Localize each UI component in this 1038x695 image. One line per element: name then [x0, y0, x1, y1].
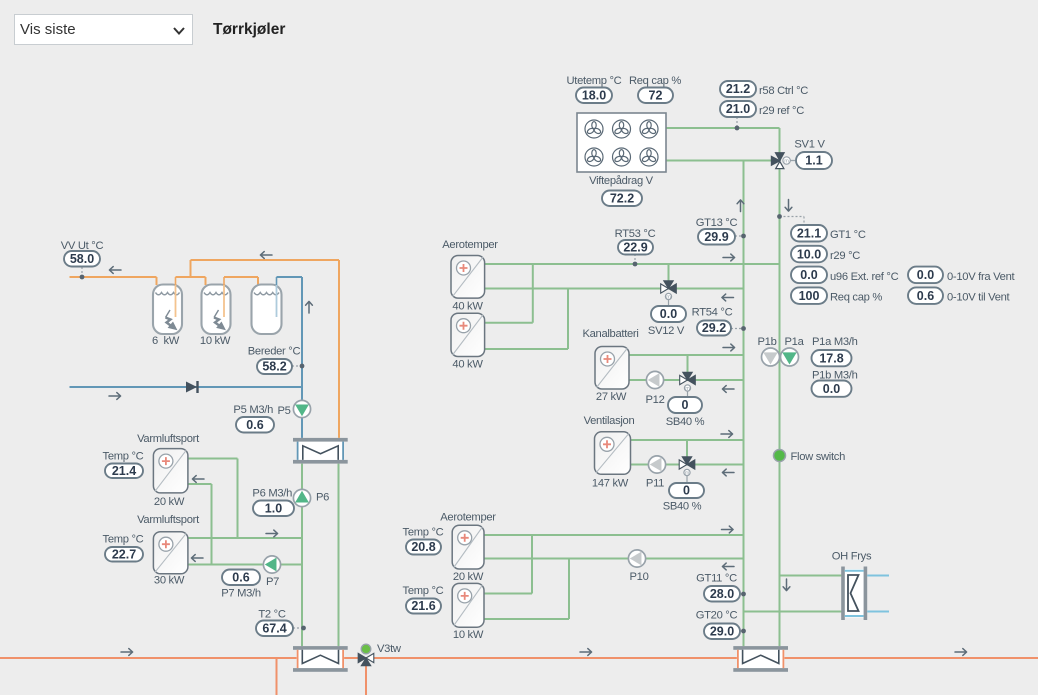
svg-text:29.2: 29.2: [702, 321, 726, 335]
svg-text:Req cap %: Req cap %: [830, 292, 882, 304]
svg-text:P1b: P1b: [758, 336, 777, 348]
svg-text:10 kW: 10 kW: [200, 335, 231, 347]
svg-text:0.0: 0.0: [800, 268, 817, 282]
svg-text:RT54 °C: RT54 °C: [692, 307, 733, 319]
svg-text:SB40 %: SB40 %: [663, 501, 702, 513]
svg-text:u96 Ext. ref °C: u96 Ext. ref °C: [830, 271, 899, 283]
svg-text:10 kW: 10 kW: [453, 629, 484, 641]
svg-text:0.0: 0.0: [917, 268, 934, 282]
svg-text:0-10V fra Vent: 0-10V fra Vent: [947, 271, 1016, 283]
svg-text:67.4: 67.4: [262, 621, 286, 635]
svg-text:P6: P6: [316, 492, 329, 504]
svg-text:0.6: 0.6: [232, 570, 249, 584]
svg-text:P10: P10: [629, 571, 648, 583]
svg-text:Temp °C: Temp °C: [103, 534, 144, 546]
svg-text:Flow switch: Flow switch: [791, 451, 846, 463]
svg-text:P5 M3/h: P5 M3/h: [233, 404, 273, 416]
svg-text:Viftepådrag V: Viftepådrag V: [589, 175, 654, 187]
svg-text:P7: P7: [266, 576, 279, 588]
svg-text:18.0: 18.0: [582, 88, 606, 102]
svg-text:GT11 °C: GT11 °C: [696, 573, 737, 585]
svg-text:Utetemp °C: Utetemp °C: [567, 75, 622, 87]
svg-text:Kanalbatteri: Kanalbatteri: [582, 328, 638, 340]
svg-text:T2 °C: T2 °C: [258, 609, 285, 621]
svg-text:r29 °C: r29 °C: [830, 250, 860, 262]
svg-text:40 kW: 40 kW: [452, 359, 483, 371]
svg-text:22.9: 22.9: [623, 240, 647, 254]
svg-text:GT1 °C: GT1 °C: [830, 229, 866, 241]
svg-text:21.4: 21.4: [112, 464, 136, 478]
svg-text:0.0: 0.0: [660, 307, 677, 321]
svg-text:21.0: 21.0: [726, 102, 750, 116]
svg-text:GT13 °C: GT13 °C: [696, 217, 738, 229]
svg-text:10.0: 10.0: [797, 247, 821, 261]
svg-text:147 kW: 147 kW: [592, 478, 629, 490]
svg-text:1.0: 1.0: [265, 501, 282, 515]
svg-text:P5: P5: [278, 405, 291, 417]
svg-text:Req cap %: Req cap %: [629, 75, 681, 87]
svg-text:22.7: 22.7: [112, 547, 136, 561]
svg-text:0.0: 0.0: [823, 382, 840, 396]
svg-text:SV1 V: SV1 V: [794, 139, 825, 151]
svg-text:30 kW: 30 kW: [154, 575, 185, 587]
svg-text:1.1: 1.1: [805, 154, 822, 168]
svg-text:58.2: 58.2: [262, 360, 286, 374]
svg-text:100: 100: [799, 289, 820, 303]
svg-text:0-10V til Vent: 0-10V til Vent: [947, 292, 1011, 304]
svg-text:72: 72: [649, 88, 663, 102]
svg-text:Aerotemper: Aerotemper: [440, 512, 496, 524]
svg-text:58.0: 58.0: [70, 252, 94, 266]
svg-text:28.0: 28.0: [710, 587, 734, 601]
svg-text:29.9: 29.9: [704, 230, 728, 244]
svg-text:Aerotemper: Aerotemper: [442, 239, 498, 251]
svg-text:RT53 °C: RT53 °C: [615, 228, 656, 240]
svg-text:0.6: 0.6: [917, 289, 934, 303]
svg-text:Varmluftsport: Varmluftsport: [137, 514, 200, 526]
svg-text:P11: P11: [646, 478, 664, 490]
svg-text:17.8: 17.8: [819, 351, 843, 365]
svg-text:P7 M3/h: P7 M3/h: [221, 588, 261, 600]
svg-text:Ventilasjon: Ventilasjon: [584, 415, 635, 427]
svg-text:6 kW: 6 kW: [152, 335, 180, 347]
svg-text:0: 0: [682, 398, 689, 412]
svg-text:20 kW: 20 kW: [453, 571, 484, 583]
svg-text:r29 ref °C: r29 ref °C: [759, 105, 804, 117]
svg-text:27 kW: 27 kW: [596, 391, 627, 403]
svg-text:P1a M3/h: P1a M3/h: [812, 336, 858, 348]
svg-text:72.2: 72.2: [610, 191, 634, 205]
svg-text:40 kW: 40 kW: [452, 301, 483, 313]
svg-text:29.0: 29.0: [710, 624, 734, 638]
svg-text:Temp °C: Temp °C: [103, 451, 144, 463]
svg-text:OH Frys: OH Frys: [832, 551, 872, 563]
svg-text:P12: P12: [645, 394, 664, 406]
svg-text:SB40 %: SB40 %: [666, 416, 705, 428]
svg-text:m: m: [784, 159, 789, 165]
svg-text:0.6: 0.6: [246, 418, 263, 432]
svg-text:P6 M3/h: P6 M3/h: [252, 488, 292, 500]
svg-text:Temp °C: Temp °C: [403, 585, 444, 597]
svg-text:Temp °C: Temp °C: [403, 527, 444, 539]
svg-text:21.6: 21.6: [411, 599, 435, 613]
svg-text:20.8: 20.8: [411, 540, 435, 554]
svg-text:0: 0: [683, 484, 690, 498]
svg-text:21.2: 21.2: [726, 82, 750, 96]
svg-text:GT20 °C: GT20 °C: [696, 610, 738, 622]
svg-text:21.1: 21.1: [797, 226, 821, 240]
svg-text:Varmluftsport: Varmluftsport: [137, 433, 200, 445]
svg-text:V3tw: V3tw: [377, 643, 402, 655]
svg-text:r58 Ctrl °C: r58 Ctrl °C: [759, 85, 808, 97]
svg-text:SV12 V: SV12 V: [648, 325, 685, 337]
svg-text:20 kW: 20 kW: [154, 496, 185, 508]
svg-text:Bereder °C: Bereder °C: [248, 346, 301, 358]
svg-text:P1a: P1a: [785, 336, 805, 348]
